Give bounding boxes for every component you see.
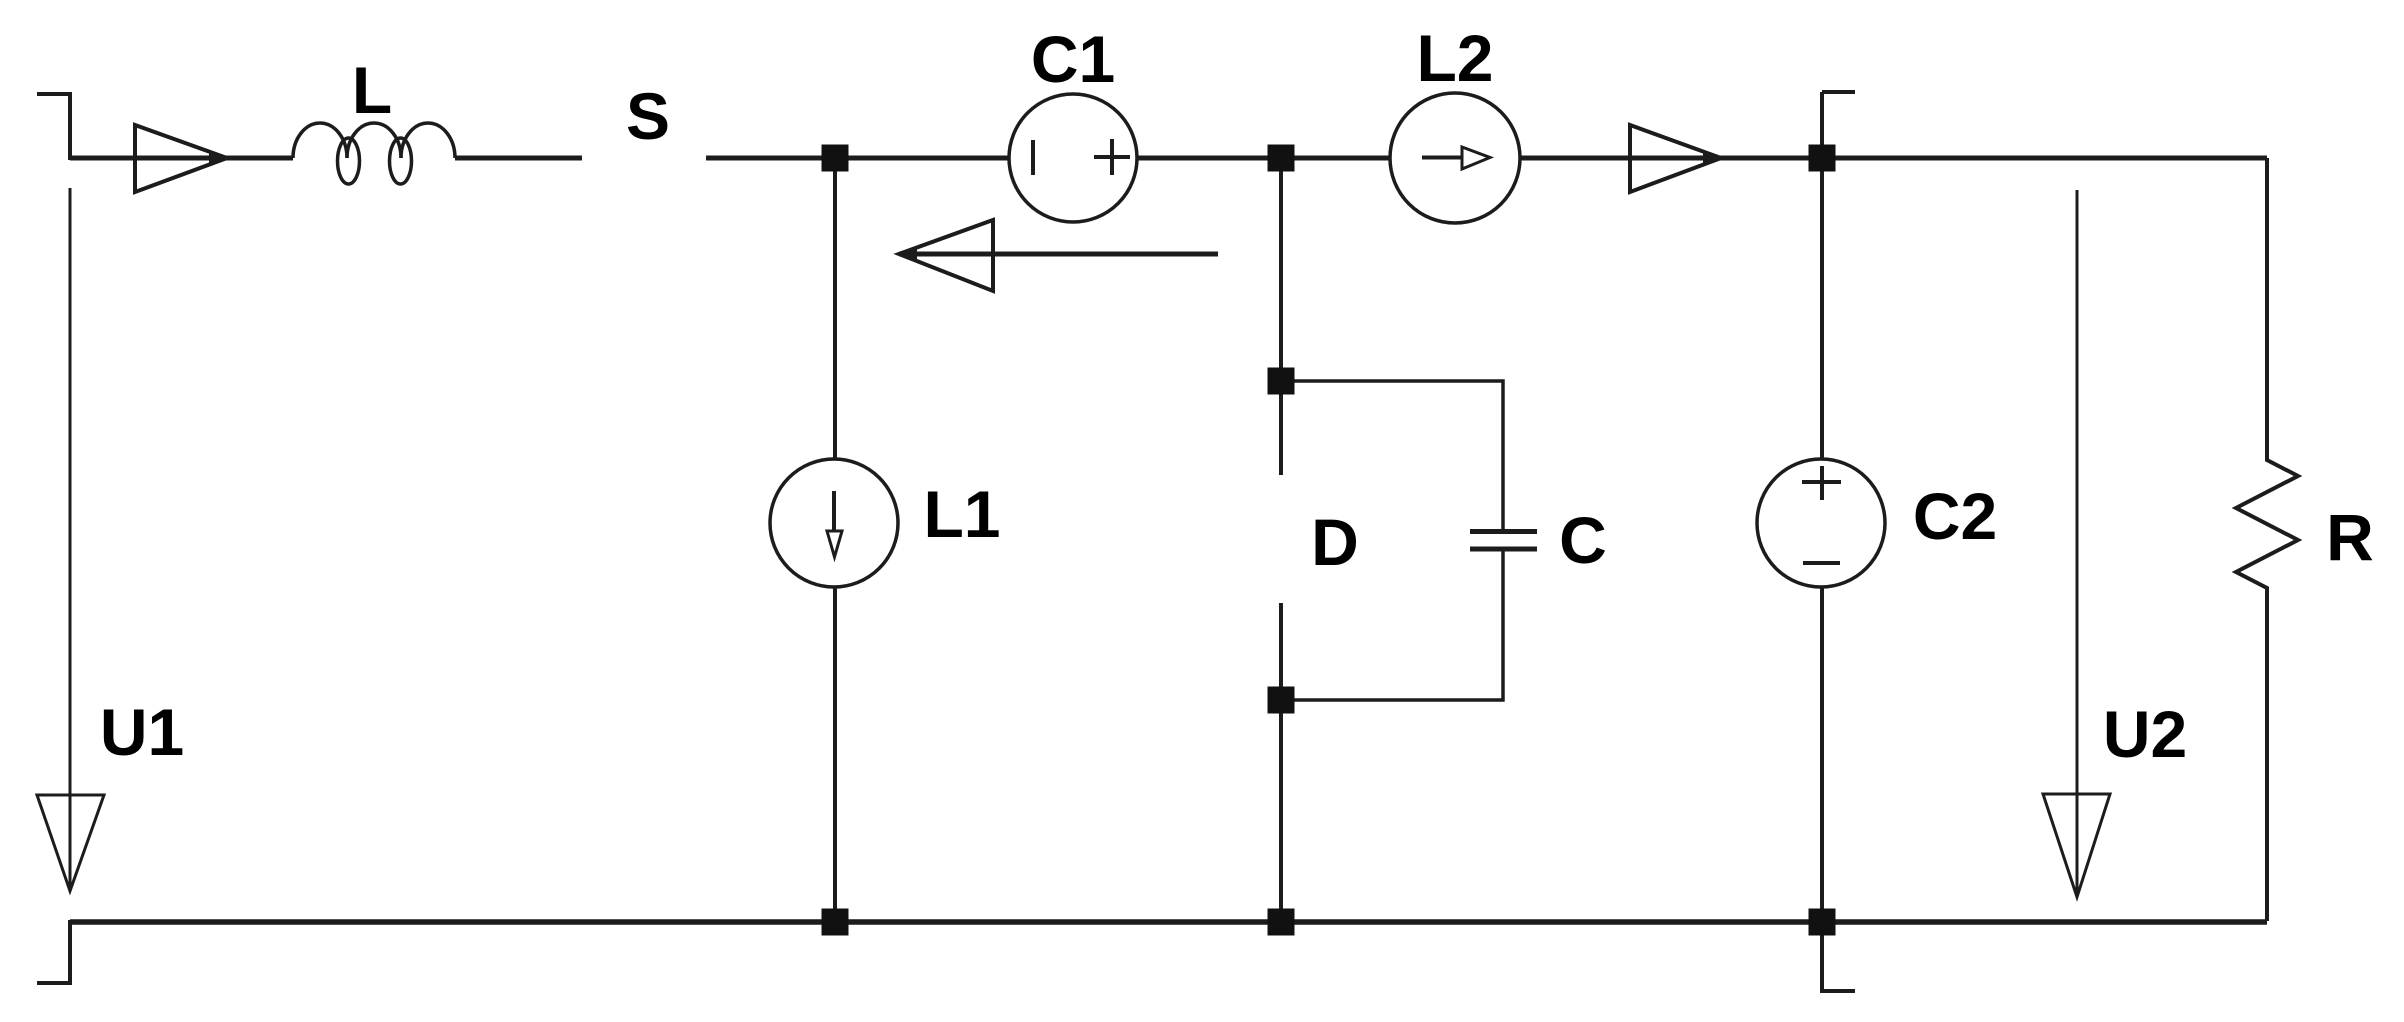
svg-text:C: C	[1559, 503, 1607, 577]
svg-text:U1: U1	[100, 695, 184, 769]
svg-text:L2: L2	[1416, 21, 1493, 95]
svg-text:L: L	[352, 53, 392, 127]
svg-text:S: S	[626, 79, 670, 153]
svg-text:C2: C2	[1913, 479, 1997, 553]
svg-text:C1: C1	[1031, 22, 1115, 96]
svg-text:D: D	[1311, 505, 1359, 579]
svg-text:U2: U2	[2103, 697, 2187, 771]
svg-text:R: R	[2326, 500, 2374, 574]
svg-text:L1: L1	[923, 477, 1000, 551]
